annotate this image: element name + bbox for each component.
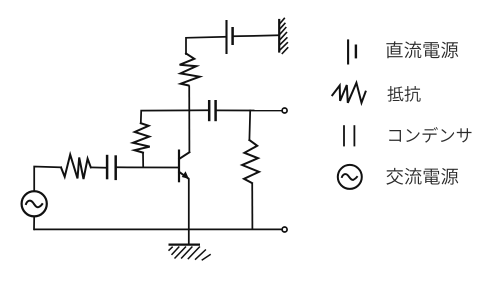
wire C2 to output terminal [216,109,282,111]
resistor R1 [180,54,200,86]
bottom rail [34,228,282,230]
wire node to R2 corner [141,110,190,123]
legend AC source circle [338,165,362,189]
legend capacitor label [389,130,401,142]
capacitor C2 right plate [214,100,217,121]
wire R1 to collector node [188,85,190,152]
battery V1 long plate [225,20,227,54]
AC source V2 circle [22,191,47,216]
wire top-left from R1 to battery [186,37,227,54]
battery V1 short plate [231,27,234,45]
legend capacitor right plate [353,125,355,146]
resistor R4 [242,140,259,183]
base wire C1 to Q1 [116,166,179,168]
legend resistor symbol [332,83,365,103]
legend capacitor left plate [343,125,345,146]
wire R4 to bottom rail [251,183,253,229]
wire R2 to base wire [142,153,144,168]
legend AC source sine [342,174,358,180]
legend resistor label [388,86,404,102]
AC source V2 sine [26,201,43,208]
wire AC source down to rail [33,216,35,229]
transistor Q1 collector [179,152,189,159]
output terminal top [282,108,287,113]
capacitor C2 left plate [208,100,211,121]
ground hatches [169,247,211,261]
capacitor C1 right plate [114,155,117,180]
resistor R3 [61,155,91,179]
transistor Q1 emitter arrow [182,172,188,178]
legend AC source label [386,168,403,185]
legend battery label [386,41,402,58]
wire R3 to C1 [91,166,107,168]
wire node to C2 [189,109,209,111]
output terminal bottom [282,227,287,232]
ground bar [169,244,201,246]
wire AC source up to R3 [34,167,61,192]
emitter wire to ground [188,178,190,244]
transistor Q1 base bar [178,150,180,183]
chassis ground wall [279,18,288,54]
transistor Q1 emitter [179,172,188,178]
legend battery long plate [347,39,349,64]
resistor R2 [133,123,150,152]
capacitor C1 left plate [106,155,109,180]
legend battery short plate [355,45,357,59]
wire down to R4 [248,111,251,141]
wire battery to chassis [233,35,279,36]
